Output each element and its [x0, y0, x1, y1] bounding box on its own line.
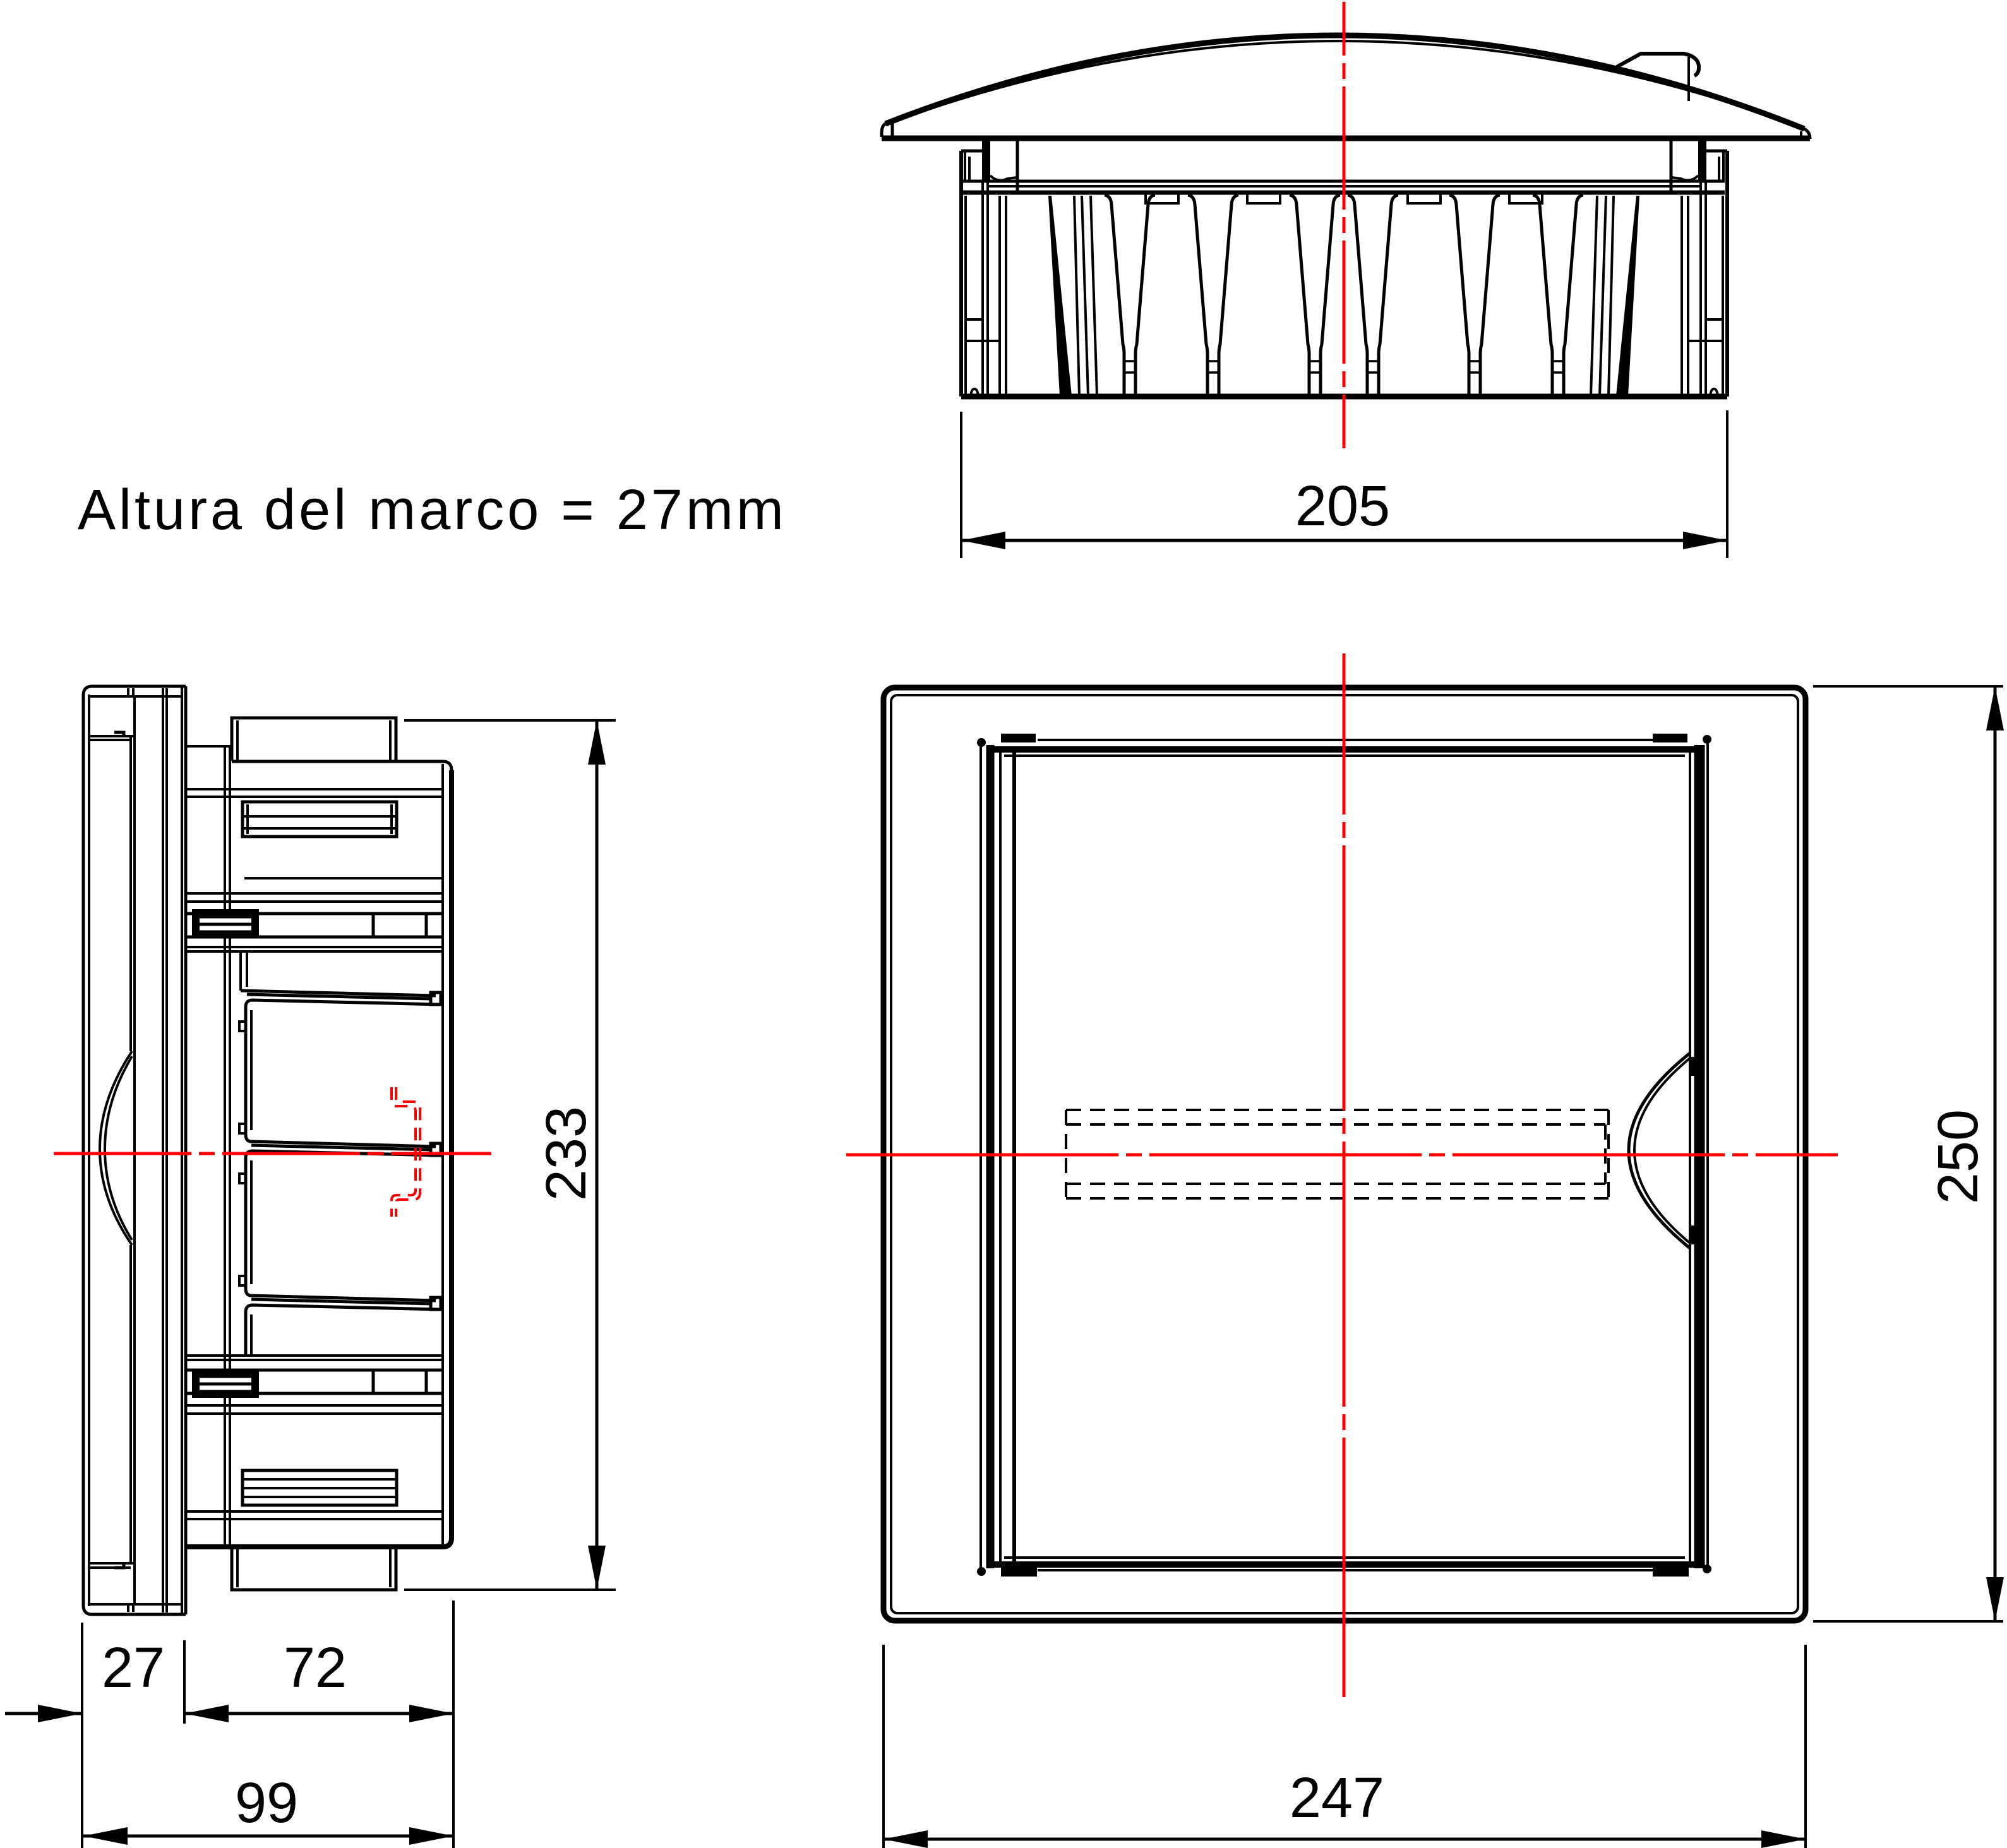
top slot rect	[243, 802, 397, 837]
left wall step	[966, 340, 1000, 342]
handle inner arc	[1634, 1058, 1690, 1243]
door panel bottom tab	[114, 1563, 124, 1568]
lid bottom edge	[882, 136, 1810, 141]
right interior wedge rib	[1616, 196, 1639, 396]
dim 27/72 extension lines	[82, 1601, 453, 1848]
dim 247 line	[884, 1838, 1806, 1841]
upper interior line	[244, 877, 443, 879]
bottom slot rect	[243, 1470, 397, 1505]
svg-text:205: 205	[1295, 475, 1390, 538]
dim 27 outside arrow	[5, 1712, 82, 1715]
long interior verticals	[224, 748, 226, 1547]
svg-text:Altura del marco = 27mm: Altura del marco = 27mm	[78, 479, 787, 542]
red dashed mounting clip detail	[392, 1087, 420, 1217]
handle outer arc	[1629, 1053, 1690, 1248]
slab inner top line	[89, 695, 183, 698]
door corner tabs	[1001, 734, 1036, 742]
shelf blade 3	[246, 1289, 441, 1356]
shelf blade 2	[246, 1135, 441, 1289]
rim mid line	[988, 185, 1700, 188]
fin slot 4	[1348, 195, 1367, 395]
door top thin line	[1038, 739, 1653, 741]
front view vertical centerline	[1343, 653, 1346, 1697]
dim 233 extension lines	[404, 720, 616, 1590]
slab inner bottom line	[89, 1603, 183, 1606]
bracket vertical upper	[241, 951, 247, 991]
upper band	[186, 893, 443, 902]
dim 233 line	[596, 720, 599, 1590]
box front wall	[184, 686, 188, 1614]
lid latch tab	[1617, 54, 1699, 76]
side view centerline	[54, 1152, 491, 1155]
dim 205 arrows	[961, 532, 1005, 549]
right rim post	[1698, 139, 1706, 180]
frame outer border	[884, 688, 1806, 1621]
left interior wedge rib	[1048, 196, 1072, 396]
bottom flange	[232, 1548, 396, 1590]
svg-text:250: 250	[1927, 1109, 1990, 1204]
door panel top tab	[114, 732, 124, 736]
dim 205 extension lines	[961, 410, 1727, 558]
bracket notch above blade 3	[239, 1276, 246, 1285]
slab top tick marks	[128, 688, 133, 696]
handle tip marks	[1691, 1057, 1696, 1076]
label window dashed inner	[1066, 1123, 1605, 1126]
bracket notch above blade 2	[239, 1124, 246, 1133]
door inner panel bottom	[89, 1563, 135, 1568]
lower band	[186, 1356, 443, 1360]
door bottom edge	[992, 1561, 1698, 1568]
rim bottom line	[963, 191, 1725, 195]
top view centerline	[1343, 2, 1346, 448]
frame slab outline	[83, 686, 186, 1614]
dim 247 extension lines	[884, 1645, 1806, 1848]
frame inner border	[891, 695, 1798, 1613]
fin slot 5	[1449, 195, 1469, 395]
door top inner thin line	[1004, 754, 1685, 757]
dim 205 line	[961, 539, 1727, 542]
box top edge left	[186, 745, 232, 748]
svg-text:233: 233	[535, 1106, 598, 1201]
shelf blade 1	[241, 991, 441, 1135]
door bottom thin line	[1038, 1569, 1653, 1571]
box top edge	[232, 761, 452, 770]
left rim post	[982, 139, 990, 180]
body bottom edge	[961, 394, 1727, 400]
lid right tip	[1804, 129, 1810, 139]
dim 99 line	[83, 1835, 453, 1838]
bracket notch below blade 2	[239, 1174, 246, 1183]
fin slot 3	[1290, 195, 1309, 395]
top flange	[232, 718, 396, 761]
svg-text:72: 72	[284, 1636, 347, 1700]
body right wall	[1725, 151, 1729, 396]
lower wide double lines	[186, 1511, 443, 1519]
door face verticals	[163, 688, 167, 1613]
door left edge lines	[980, 742, 982, 1571]
svg-text:99: 99	[235, 1772, 298, 1835]
label window dashed outer	[1066, 1110, 1609, 1198]
door top edge	[992, 746, 1698, 753]
door handle arc profile	[100, 1051, 132, 1245]
lower latch clip	[194, 1371, 257, 1396]
tapered fins	[1105, 195, 1583, 395]
door right edge lines	[1706, 742, 1709, 1571]
fin slot 1	[1105, 195, 1124, 395]
svg-text:27: 27	[102, 1636, 165, 1700]
box right wall	[441, 764, 444, 1544]
right wall step	[1688, 340, 1723, 342]
upper latch clip	[194, 911, 257, 936]
body left wall	[959, 151, 963, 396]
lid outer arc	[885, 35, 1804, 129]
rim notch tabs	[1146, 194, 1178, 203]
svg-text:247: 247	[1290, 1767, 1384, 1830]
dim 250 extension lines	[1813, 686, 2003, 1621]
lid left tip	[882, 124, 885, 137]
fin slot 2	[1188, 195, 1207, 395]
bracket notch below blade 1	[239, 1022, 246, 1031]
upper horizontal double lines	[186, 789, 443, 797]
box bottom edge	[186, 1538, 452, 1547]
dim 250 line	[1994, 686, 1997, 1621]
rim top line	[963, 180, 1725, 183]
bottom notch left	[971, 389, 978, 396]
bottom notch right	[1710, 389, 1718, 396]
door bottom inner thin line	[1004, 1556, 1685, 1559]
door panel verticals	[129, 736, 132, 1563]
fin slot 6	[1533, 195, 1552, 395]
front view horizontal centerline	[846, 1154, 1838, 1157]
door inner panel top	[89, 736, 135, 740]
dim 72 line	[184, 1712, 453, 1715]
lid inner arc	[894, 41, 1799, 126]
slab left inner vertical	[88, 694, 90, 1606]
door corner dots	[977, 738, 986, 747]
